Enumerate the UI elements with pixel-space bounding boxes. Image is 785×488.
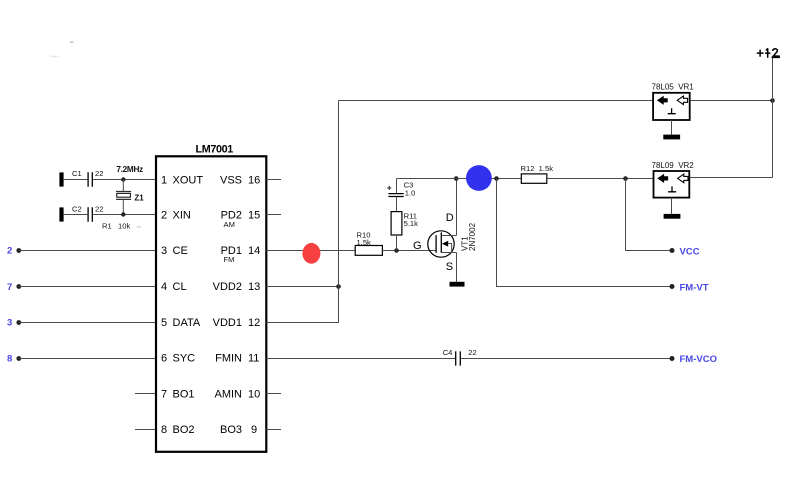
- svg-text:CL: CL: [173, 281, 187, 293]
- label C4 value 22: [468, 348, 476, 357]
- svg-text:C1: C1: [72, 169, 82, 178]
- svg-text:VDD2: VDD2: [213, 281, 242, 293]
- wire R11 to gate: [396, 235, 398, 251]
- wire vdd vertical rail: [338, 101, 340, 287]
- svg-text:3: 3: [161, 245, 167, 257]
- svg-text:S: S: [446, 261, 453, 273]
- wire stub pin 9 BO3: [266, 429, 281, 431]
- svg-text:XIN: XIN: [173, 210, 191, 222]
- svg-text:LM7001: LM7001: [196, 143, 234, 155]
- svg-text:16: 16: [248, 175, 260, 187]
- label C1 value 22: [95, 169, 103, 178]
- svg-text:1: 1: [161, 175, 167, 187]
- label C2: [72, 204, 82, 213]
- svg-text:C2: C2: [72, 204, 82, 213]
- svg-text:10: 10: [248, 388, 260, 400]
- wire Z1 bottom: [122, 199, 124, 214]
- label S: [446, 261, 453, 273]
- svg-text:XOUT: XOUT: [173, 175, 204, 187]
- label D: [446, 212, 454, 224]
- wire VR2 input from +12 rail: [689, 177, 772, 179]
- svg-text:22: 22: [95, 169, 103, 178]
- svg-text:7.2MHz: 7.2MHz: [116, 165, 143, 174]
- wire R12 to VR2 input: [547, 178, 654, 180]
- svg-text:BO3: BO3: [220, 424, 242, 436]
- svg-text:VCC: VCC: [680, 247, 700, 258]
- label C3 1.0: [404, 181, 416, 198]
- label C1: [72, 169, 82, 178]
- svg-text:2N7002: 2N7002: [468, 222, 477, 251]
- IC U1 LM7001: [156, 143, 266, 451]
- wire 5V rail to VR1 output: [339, 100, 654, 102]
- svg-text:FM-VT: FM-VT: [680, 283, 709, 294]
- svg-text:78L05 VR1: 78L05 VR1: [652, 83, 695, 92]
- wire source to ground: [456, 253, 458, 282]
- node junction +12 / VR1 input: [770, 98, 775, 103]
- svg-text:R1 10k: R1 10k: [102, 222, 130, 231]
- svg-text:8: 8: [161, 424, 167, 436]
- svg-text:Z1: Z1: [134, 194, 144, 203]
- node junction R10/R11/gate: [394, 248, 399, 253]
- crystal Z1: [116, 192, 131, 200]
- node terminal 3 (DATA): [7, 318, 21, 329]
- wire pin 12 VDD1 to vdd rail: [266, 287, 338, 323]
- regulator VR1 78L05: [653, 93, 690, 120]
- wire VR1 ground stub: [671, 120, 673, 135]
- svg-text:4: 4: [161, 281, 167, 293]
- wire stub pin 16 VSS: [266, 179, 281, 181]
- svg-text:SYC: SYC: [173, 353, 196, 365]
- label R11 5.1k: [404, 211, 419, 228]
- svg-text:8: 8: [7, 353, 12, 364]
- ground VT1 source: [450, 282, 465, 287]
- wire C4 to FM-VCO: [461, 358, 672, 360]
- svg-text:AMIN: AMIN: [215, 388, 243, 400]
- svg-text:1.0: 1.0: [405, 188, 416, 197]
- wire Z1 top: [122, 180, 124, 192]
- ground VR1: [663, 135, 680, 140]
- connector bar pin C2 left: [59, 207, 63, 221]
- wire pin 14 PD1 to R10: [266, 250, 355, 252]
- svg-text:6: 6: [161, 353, 167, 365]
- wire drain to node: [456, 179, 458, 236]
- wire pin 11 FMIN to C4: [266, 358, 455, 360]
- svg-text:FMIN: FMIN: [215, 353, 242, 365]
- svg-text:CE: CE: [173, 245, 188, 257]
- wire C2 to pin 2 XIN: [93, 214, 156, 216]
- wire stub pin 7 BO1: [135, 393, 156, 395]
- wire C2 left segment: [64, 214, 88, 216]
- label 7.2MHz: [116, 165, 143, 174]
- label 78L09 VR2: [652, 161, 695, 170]
- wire FM-VT drop: [497, 179, 673, 287]
- label VT1 2N7002: [460, 222, 477, 251]
- wire node rail C3 to R12: [397, 178, 522, 180]
- label R12 1.5k: [521, 164, 554, 173]
- label Z1: [134, 194, 144, 203]
- svg-text:14: 14: [248, 245, 260, 257]
- label R1 10k: [102, 222, 141, 231]
- connector bar pin C1 left: [59, 172, 63, 186]
- node junction XOUT / Z1: [121, 177, 125, 181]
- regulator VR2 78L09: [654, 171, 690, 198]
- wire stub pin 10 AMIN: [266, 393, 281, 395]
- svg-text:+: +: [387, 183, 392, 193]
- wire stub pin 8 BO2: [135, 429, 156, 431]
- svg-text:3: 3: [7, 318, 12, 329]
- wire C1 to pin 1 XOUT: [93, 179, 156, 181]
- label C4: [443, 348, 453, 357]
- svg-text:5: 5: [161, 317, 167, 329]
- label C2 value 22: [95, 204, 103, 213]
- svg-text:22: 22: [95, 204, 103, 213]
- resistor R12: [521, 174, 547, 183]
- faint scan artifact dash: [51, 41, 74, 57]
- svg-text:15: 15: [248, 210, 260, 222]
- label R10 1.5k: [357, 230, 372, 247]
- svg-text:VDD1: VDD1: [213, 317, 242, 329]
- svg-text:78L09 VR2: 78L09 VR2: [652, 161, 695, 170]
- marker blue dot on node: [466, 165, 492, 191]
- label +12 (handwritten): [757, 49, 779, 58]
- node junction XIN / Z1: [121, 212, 125, 216]
- svg-text:9: 9: [251, 424, 257, 436]
- capacitor C3: [387, 179, 404, 212]
- wire VR2 ground stub: [671, 198, 673, 214]
- svg-text:DATA: DATA: [173, 317, 201, 329]
- node junction VDD2 on rail: [336, 284, 341, 289]
- wire VR1 input to +12 rail: [690, 100, 773, 102]
- svg-text:G: G: [413, 240, 422, 252]
- transistor VT1 2N7002: [428, 231, 457, 257]
- node terminal 8 (SYC): [7, 353, 21, 364]
- svg-text:11: 11: [248, 353, 259, 365]
- node terminal 2 (CE): [7, 246, 21, 257]
- resistor R10: [355, 246, 382, 256]
- svg-text:VSS: VSS: [220, 175, 242, 187]
- wire +12 vertical rail: [772, 58, 774, 178]
- svg-text:2: 2: [7, 246, 12, 257]
- svg-text:C4: C4: [443, 348, 453, 357]
- wire VCC drop: [626, 179, 673, 251]
- wire C1 left segment: [64, 179, 88, 181]
- resistor R11: [391, 212, 402, 235]
- svg-text:2: 2: [161, 210, 167, 222]
- node terminal 7 (CL): [7, 282, 21, 293]
- svg-text:12: 12: [248, 317, 260, 329]
- svg-text:22: 22: [468, 348, 476, 357]
- capacitor C2: [88, 207, 92, 221]
- wire terminal 3 to pin 5 DATA: [19, 322, 156, 324]
- node FM-VT: [670, 283, 709, 294]
- svg-text:7: 7: [161, 388, 167, 400]
- capacitor C4: [456, 351, 461, 365]
- wire stub pin 15 PD2: [266, 214, 281, 216]
- node junction VCC drop: [623, 176, 628, 181]
- svg-text:BO2: BO2: [173, 424, 195, 436]
- wire pin 13 VDD2 to vdd rail: [266, 286, 338, 288]
- node VCC: [670, 247, 700, 258]
- marker red dot on PD1 wire: [302, 243, 320, 264]
- svg-text:FM-VCO: FM-VCO: [680, 354, 717, 365]
- svg-text:5.1k: 5.1k: [404, 219, 419, 228]
- label 78L05 VR1: [652, 83, 695, 92]
- label G: [413, 240, 422, 252]
- wire terminal 7 to pin 4 CL: [19, 286, 156, 288]
- ground VR2: [664, 214, 681, 219]
- node junction drain: [454, 176, 459, 181]
- svg-text:D: D: [446, 212, 454, 224]
- node junction FM-VT drop: [494, 176, 499, 181]
- node FM-VCO: [670, 354, 717, 365]
- capacitor C1: [88, 172, 92, 186]
- svg-text:1.5k: 1.5k: [357, 238, 372, 247]
- svg-text:7: 7: [7, 282, 12, 293]
- svg-text:BO1: BO1: [173, 388, 195, 400]
- svg-text:AM: AM: [224, 220, 235, 229]
- svg-text:R12 1.5k: R12 1.5k: [521, 164, 554, 173]
- svg-text:13: 13: [248, 281, 260, 293]
- wire R10 to gate node: [382, 250, 436, 252]
- svg-text:FM: FM: [224, 255, 235, 264]
- wire terminal 8 to pin 6 SYC: [19, 358, 156, 360]
- wire terminal 2 to pin 3 CE: [19, 250, 156, 252]
